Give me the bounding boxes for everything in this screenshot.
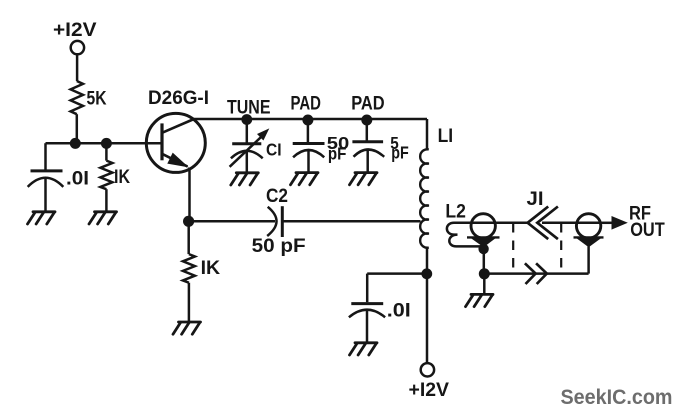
svg-text:.0I: .0I: [66, 169, 89, 190]
svg-text:LI: LI: [438, 126, 454, 147]
svg-text:5K: 5K: [87, 89, 107, 110]
svg-text:CI: CI: [266, 140, 282, 160]
svg-text:D26G-I: D26G-I: [148, 88, 209, 109]
svg-text:IK: IK: [201, 258, 221, 279]
svg-text:IK: IK: [114, 167, 130, 188]
svg-text:pF: pF: [391, 143, 409, 163]
svg-text:SeekIC.com: SeekIC.com: [561, 386, 673, 409]
svg-text:.0I: .0I: [387, 300, 411, 321]
svg-text:+I2V: +I2V: [409, 379, 450, 401]
svg-text:+I2V: +I2V: [53, 19, 97, 41]
svg-text:OUT: OUT: [630, 220, 665, 241]
svg-text:L2: L2: [445, 202, 466, 223]
svg-text:50 pF: 50 pF: [252, 236, 306, 257]
svg-text:C2: C2: [266, 186, 288, 207]
svg-text:TUNE: TUNE: [227, 97, 271, 118]
svg-text:PAD: PAD: [351, 93, 385, 114]
svg-text:PAD: PAD: [291, 94, 322, 115]
svg-text:JI: JI: [527, 189, 544, 210]
svg-text:pF: pF: [328, 143, 347, 163]
